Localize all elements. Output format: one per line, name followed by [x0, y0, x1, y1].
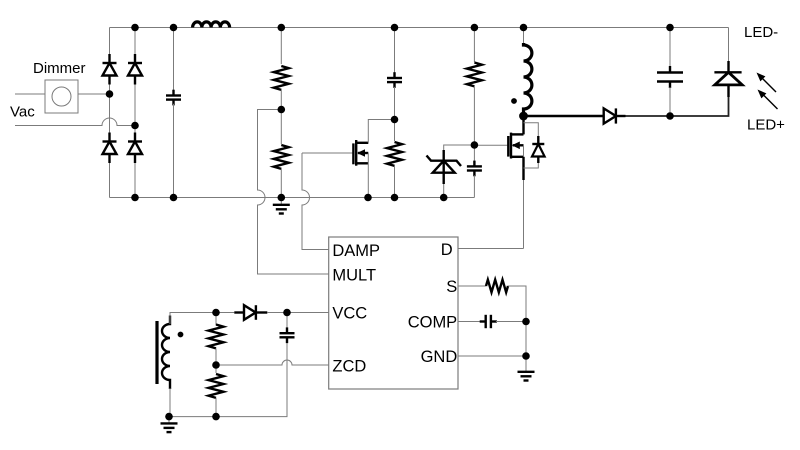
resistor R2 divider lower: [274, 110, 289, 198]
svg-text:ZCD: ZCD: [332, 358, 366, 376]
svg-text:Vac: Vac: [10, 104, 35, 121]
transistor Q1 damper MOSFET: [353, 140, 368, 166]
wire damper gate: [302, 152, 353, 154]
node dot divider tap: [278, 106, 286, 114]
wire Q2 drain: [522, 116, 524, 134]
inductor L1: [193, 22, 230, 28]
wire VCC node to pin: [267, 312, 328, 314]
wire Vac top lead into dimmer: [15, 93, 45, 95]
ground G3 aux: [161, 417, 178, 433]
node dots bottom rail: [131, 194, 139, 202]
wire D pin: [458, 248, 524, 250]
wire COMP pin: [458, 321, 486, 323]
capacitor C5 output: [657, 28, 683, 117]
wire aux bottom: [169, 388, 171, 417]
wire MULT tap with hop over bottom rail: [258, 110, 329, 275]
transformer T1 aux winding: [162, 316, 170, 390]
node T1 aux phase dot: [178, 332, 184, 338]
wire aux ground rail: [169, 339, 287, 417]
node dot zcd tap: [212, 361, 220, 369]
svg-text:Dimmer: Dimmer: [33, 60, 86, 77]
wire sense to comp node: [508, 286, 526, 372]
svg-text:VCC: VCC: [332, 305, 367, 323]
svg-text:COMP: COMP: [408, 314, 458, 332]
node dot output cap: [666, 112, 674, 120]
svg-text:LED+: LED+: [747, 117, 785, 134]
ground G2 at GND pin: [518, 372, 535, 381]
diode D3 bridge bottom-left: [103, 133, 117, 164]
resistor R6 zcd lower: [209, 365, 224, 417]
wire DAMP with hop over bottom rail: [302, 153, 329, 250]
zener Z1 gate clamp: [427, 145, 475, 198]
wire switching node thick run to output diode: [524, 115, 604, 117]
dimmer box: [45, 80, 78, 113]
svg-text:DAMP: DAMP: [332, 242, 380, 260]
svg-text:MULT: MULT: [332, 267, 376, 285]
capacitor C6 comp: [480, 315, 526, 328]
wire dimmer output: [78, 93, 110, 95]
wire output run to LED corner: [626, 97, 729, 116]
node dot switching: [519, 112, 528, 121]
wire top rail: [110, 27, 729, 29]
resistor R5 zcd upper: [209, 313, 224, 366]
wire aux top: [170, 313, 216, 325]
wire Q1 drain to node: [368, 120, 394, 143]
diode D4 bridge bottom-right: [128, 133, 142, 164]
dimmer circle: [52, 87, 71, 106]
node dot vcc: [283, 309, 291, 317]
wire GND pin: [458, 355, 526, 357]
node dot dimmer out: [106, 90, 114, 98]
diode D8 body diode: [524, 123, 545, 168]
svg-text:LED-: LED-: [744, 24, 778, 41]
wire Vac bottom lead with hop over left column: [15, 118, 135, 126]
node dot gnd: [522, 352, 530, 360]
svg-text:D: D: [441, 241, 453, 259]
wire S pin: [458, 285, 486, 287]
wire aux node to VCC diode: [216, 312, 234, 314]
node dot damper: [391, 116, 399, 124]
node T1 primary phase dot: [511, 98, 517, 104]
wire Q2 source down to D pin run: [523, 157, 525, 249]
resistor R1 divider upper: [274, 28, 289, 110]
node dot aux ground: [165, 413, 173, 421]
node dots top rail: [131, 24, 139, 32]
node dot comp: [522, 318, 530, 326]
diode D2 bridge top-right: [128, 54, 142, 85]
resistor R4 gate feed: [467, 28, 482, 146]
diode D1 bridge top-left: [103, 54, 117, 85]
transformer T1 core bar: [155, 321, 158, 384]
wire ZCD with hop over cap return: [216, 360, 329, 365]
transistor Q2 main MOSFET: [508, 133, 523, 159]
ground G1 main: [273, 198, 290, 214]
svg-text:GND: GND: [421, 348, 458, 366]
wire left bridge column: [109, 28, 111, 198]
wire right bridge column: [134, 28, 136, 198]
node dot gate: [471, 141, 479, 149]
LED arrow upper: [757, 73, 777, 93]
node dot aux rail: [212, 413, 220, 421]
wire LED- drop: [728, 28, 730, 62]
capacitor C3 gate: [467, 145, 482, 198]
capacitor C1 input filter: [166, 28, 181, 198]
wire Q1 source to rail: [367, 163, 369, 197]
svg-text:S: S: [446, 278, 457, 296]
wire bottom rectified rail: [110, 197, 475, 199]
node dot aux top: [212, 309, 220, 317]
capacitor C2 damper: [387, 28, 402, 120]
op-amp U1 controller box: [329, 237, 458, 389]
node dot vac bottom: [131, 122, 139, 130]
wire main gate: [474, 144, 507, 146]
diode D5 VCC: [234, 305, 267, 320]
transformer T1 primary winding: [524, 28, 532, 117]
capacitor C4 VCC: [280, 313, 295, 344]
LED D6: [714, 61, 742, 97]
resistor R7 sense: [486, 280, 508, 293]
diode D7 freewheel: [604, 108, 626, 123]
LED arrow lower: [758, 90, 778, 110]
resistor R3 damper: [387, 120, 402, 198]
